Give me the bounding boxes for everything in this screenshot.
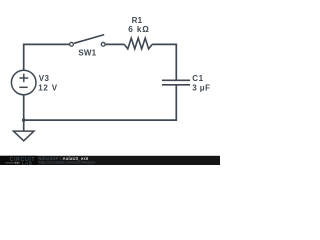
svg-text:R1: R1 (132, 16, 143, 25)
svg-text:V3: V3 (39, 74, 50, 83)
capacitor C1 (162, 80, 190, 85)
switch SW1 (70, 35, 106, 47)
voltage source V3 (11, 70, 36, 95)
svg-text:3 μF: 3 μF (192, 83, 210, 92)
wire top-left vertical (24, 44, 70, 70)
footer bar (0, 156, 220, 165)
footer logo box (0, 156, 38, 165)
wire switch to resistor (105, 43, 124, 45)
resistor R1 (124, 38, 152, 49)
svg-text:LAB: LAB (22, 161, 33, 166)
svg-text:6 kΩ: 6 kΩ (128, 25, 150, 34)
node junction (22, 118, 26, 122)
svg-text:C1: C1 (192, 74, 203, 83)
ground (13, 120, 34, 141)
svg-text:http://circuitlab.com/c2hrc4kq: http://circuitlab.com/c2hrc4kqhzw (39, 160, 96, 164)
wire resistor to capacitor (152, 44, 176, 80)
svg-text:SW1: SW1 (78, 49, 96, 58)
wire source bottom (23, 95, 25, 120)
footer logo LAB line (6, 161, 33, 166)
wire capacitor to bottom (24, 85, 177, 120)
svg-text:12 V: 12 V (38, 83, 58, 92)
